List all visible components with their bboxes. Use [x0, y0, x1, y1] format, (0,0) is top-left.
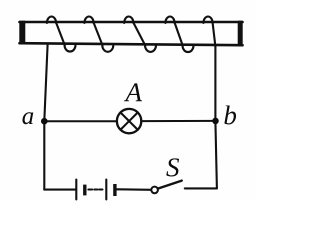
coil top loop 3 — [124, 17, 133, 24]
coil top loop 4 — [165, 17, 174, 24]
coil bottom loop 4 — [183, 46, 194, 53]
wire left lead — [44, 45, 47, 190]
coil bottom loop 2 — [102, 45, 113, 52]
wire battery to switch — [117, 188, 152, 191]
label a — [22, 112, 33, 124]
solenoid core top edge — [20, 21, 243, 24]
coil top loop 5 — [203, 17, 212, 24]
label S — [166, 158, 179, 176]
battery dashed link — [88, 189, 102, 191]
node b junction dot — [212, 118, 219, 125]
label A — [124, 83, 142, 101]
lamp A circle — [117, 109, 141, 133]
coil top loop 2 — [84, 16, 93, 23]
switch S lever — [158, 181, 182, 189]
coil turn wire 4 — [175, 23, 183, 46]
wire middle left segment — [44, 120, 117, 122]
battery cell 1 long plate — [75, 180, 77, 200]
lamp A cross — [121, 113, 138, 130]
label b — [224, 105, 236, 124]
solenoid core bottom edge — [20, 43, 243, 45]
wire bottom left segment — [44, 189, 75, 191]
coil turn wire 2 — [94, 23, 103, 46]
wire right lead — [215, 46, 217, 188]
battery cell 2 long plate — [105, 180, 107, 200]
solenoid core right cap — [238, 21, 243, 47]
solenoid core left cap — [19, 21, 25, 45]
battery cell 2 short plate — [113, 184, 116, 196]
node a junction dot — [41, 118, 48, 125]
battery cell 1 short plate — [83, 185, 86, 196]
coil top loop 1 — [47, 16, 56, 23]
wire bottom right segment — [185, 187, 217, 189]
coil turn wire 5 — [213, 23, 216, 47]
switch S pivot — [151, 187, 158, 194]
coil turn wire 3 — [133, 23, 145, 46]
wire middle right segment — [141, 120, 215, 122]
coil bottom loop 3 — [145, 45, 156, 52]
coil turn wire 1 — [56, 23, 65, 46]
coil bottom loop 1 — [65, 45, 76, 52]
